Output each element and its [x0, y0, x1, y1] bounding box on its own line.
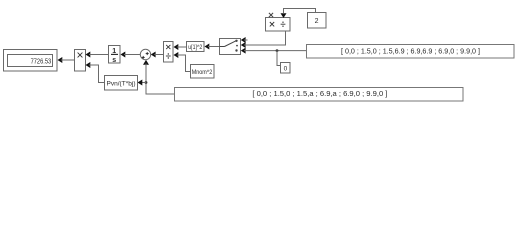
- switch block: [220, 39, 241, 55]
- wire divide(top) output to switch input 2: [241, 31, 286, 48]
- vector constant block 2: [175, 88, 464, 102]
- wire Pvn fcn to product input 2: [86, 62, 105, 83]
- svg-text:0: 0: [284, 66, 288, 73]
- svg-text:s: s: [112, 57, 116, 64]
- integrator block 1/s: [109, 46, 121, 65]
- wire product to display: [58, 57, 75, 63]
- unconnected input port mark (x) above divide top: [269, 13, 273, 17]
- svg-text:7726.53: 7726.53: [31, 59, 52, 66]
- svg-text:2: 2: [315, 18, 319, 25]
- wire constant 2 to divide top input: [281, 9, 316, 19]
- branch wire to small display 0: [276, 49, 281, 65]
- product block P1 (x): [75, 50, 86, 72]
- svg-text:[ 0,0 ; 1.5,0 ; 1.5,6.9 ; 6.9,: [ 0,0 ; 1.5,0 ; 1.5,6.9 ; 6.9,6.9 ; 6.9,…: [341, 47, 480, 56]
- wire integrator to product input 1: [86, 52, 109, 58]
- svg-text:Mnom^2: Mnom^2: [192, 69, 213, 76]
- fcn block Pvn/(T*bj): [105, 76, 138, 91]
- svg-text:u[1]^2: u[1]^2: [188, 44, 202, 51]
- wire vector constant 2 to sum bottom input and Pvn input (branch): [138, 60, 175, 94]
- wire vector constant 1 to switch input 3: [241, 48, 307, 54]
- wire u[1]^2 to divide input 1: [174, 44, 187, 50]
- wire divide to sum right input: [151, 52, 164, 58]
- fcn block u[1]^2: [187, 42, 205, 52]
- vector constant block 1: [307, 45, 515, 59]
- svg-text:Pvn/(T*bj): Pvn/(T*bj): [107, 80, 136, 87]
- switch input 1 stub wire: [241, 37, 248, 43]
- wire Mnom^2 to divide input 2: [174, 52, 191, 72]
- wire switch to u[1]^2: [205, 44, 220, 50]
- divide block (x over /): [164, 42, 174, 63]
- wire sum to integrator: [121, 52, 141, 58]
- small display block 0: [281, 63, 291, 74]
- sum block (circle ++): [140, 49, 150, 59]
- constant block 2: [308, 13, 327, 29]
- svg-text:[ 0,0 ; 1.5,0 ; 1.5,a ; 6.9,a: [ 0,0 ; 1.5,0 ; 1.5,a ; 6.9,a ; 6.9,0 ; …: [252, 89, 387, 98]
- divide block top (x /) rotated: [266, 18, 291, 32]
- display block Display (7726.53): [4, 50, 58, 72]
- constant block Mnom^2: [191, 65, 215, 79]
